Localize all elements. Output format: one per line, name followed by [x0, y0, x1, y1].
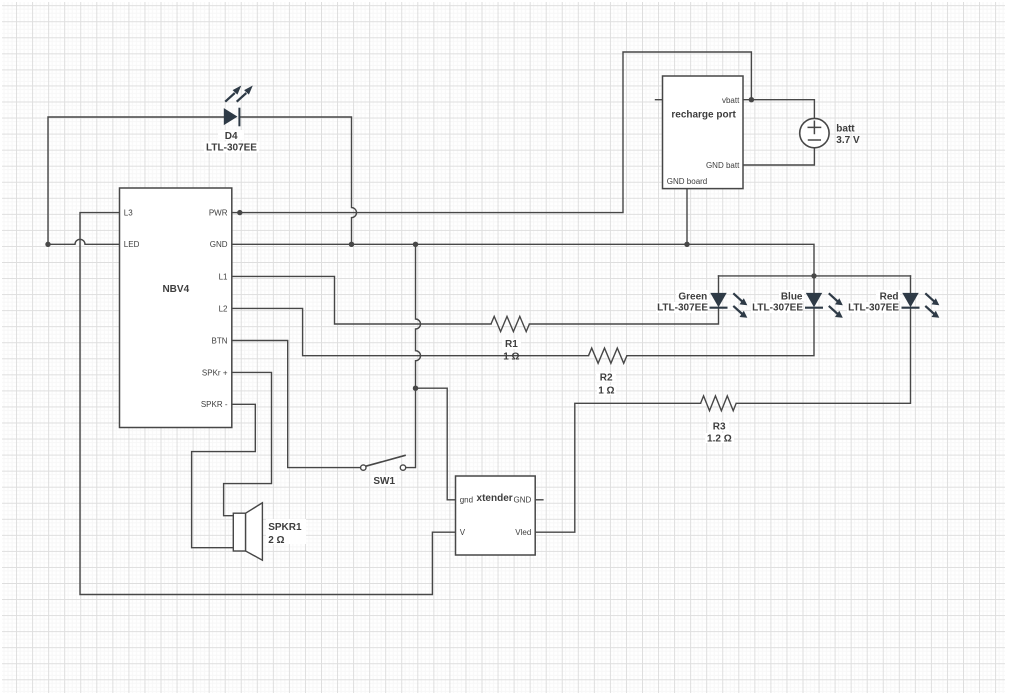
wire: [232, 341, 361, 468]
svg-text:LTL-307EE: LTL-307EE: [848, 303, 899, 314]
IC U1 NBV4 box: [120, 188, 232, 428]
label Green: [656, 290, 709, 314]
pin labels recharge port: [667, 96, 740, 186]
svg-text:L1: L1: [219, 272, 228, 281]
wire: [406, 244, 421, 467]
wire: [48, 239, 120, 244]
wire: [627, 308, 814, 356]
svg-text:GND: GND: [210, 240, 228, 249]
svg-text:SPKR -: SPKR -: [201, 400, 228, 409]
svg-text:GND board: GND board: [667, 177, 707, 186]
svg-text:1 Ω: 1 Ω: [503, 352, 519, 363]
wire: [686, 189, 688, 245]
wire: [192, 404, 256, 547]
resistor R1: [491, 316, 529, 331]
label R3: [705, 421, 734, 445]
wire: [224, 372, 272, 515]
wire: [718, 276, 720, 293]
svg-text:2 Ω: 2 Ω: [268, 535, 284, 546]
svg-text:NBV4: NBV4: [162, 284, 189, 295]
junction node vbatt: [749, 97, 754, 102]
label D4: [218, 130, 244, 142]
svg-text:R1: R1: [505, 339, 518, 350]
svg-text:1 Ω: 1 Ω: [598, 386, 614, 397]
svg-text:LTL-307EE: LTL-307EE: [657, 303, 708, 314]
svg-text:Blue: Blue: [781, 291, 803, 302]
label batt 3.7V: [836, 123, 860, 146]
wire pin stub recharge port left: [656, 99, 663, 101]
junction node D4-GND: [349, 242, 354, 247]
wire: [736, 308, 910, 404]
svg-text:Vled: Vled: [515, 528, 531, 537]
junction node GND-SW: [413, 242, 418, 247]
label Blue: [751, 290, 804, 314]
wire: [529, 308, 718, 324]
speaker SPKR1: [233, 503, 262, 560]
svg-text:LTL-307EE: LTL-307EE: [752, 303, 803, 314]
label R2: [596, 372, 616, 397]
svg-text:PWR: PWR: [209, 208, 228, 217]
svg-text:L2: L2: [219, 304, 228, 313]
IC U3 xtender box: [456, 476, 536, 555]
svg-text:1.2 Ω: 1.2 Ω: [707, 434, 732, 445]
LED red: [902, 293, 940, 318]
wire: [719, 275, 911, 277]
svg-text:3.7 V: 3.7 V: [836, 135, 860, 146]
pin labels NBV4: [124, 208, 228, 409]
svg-text:R3: R3: [713, 421, 726, 432]
svg-text:SW1: SW1: [373, 476, 395, 487]
wire: [80, 213, 456, 595]
svg-text:xtender: xtender: [477, 493, 513, 504]
wire: [232, 276, 491, 324]
label Red: [847, 290, 900, 314]
wire: [743, 148, 814, 165]
svg-text:Red: Red: [880, 291, 899, 302]
wire: [232, 52, 752, 213]
label R1: [502, 339, 521, 363]
svg-text:LED: LED: [124, 240, 140, 249]
label SPKR1 2ohm: [266, 519, 306, 546]
label SW1: [372, 475, 397, 487]
resistor R2: [589, 348, 627, 363]
svg-text:GND batt: GND batt: [706, 161, 740, 170]
wire: [239, 117, 356, 244]
junction node PWR: [237, 210, 242, 215]
LED D4: [224, 86, 253, 127]
wire: [416, 388, 456, 500]
svg-text:gnd: gnd: [460, 496, 473, 505]
junction node SW-xtender: [413, 386, 418, 391]
svg-text:Green: Green: [678, 291, 707, 302]
svg-text:recharge port: recharge port: [671, 110, 736, 121]
svg-text:L3: L3: [124, 208, 133, 217]
svg-text:vbatt: vbatt: [722, 96, 740, 105]
svg-text:SPKr +: SPKr +: [202, 368, 228, 377]
wire: [232, 244, 814, 276]
junction node LED bus: [811, 273, 816, 278]
wire: [48, 117, 224, 244]
resistor R3: [701, 396, 737, 411]
svg-text:D4: D4: [225, 131, 238, 142]
wire: [743, 100, 814, 119]
svg-text:R2: R2: [600, 372, 613, 383]
battery batt: [800, 118, 829, 147]
svg-text:LTL-307EE: LTL-307EE: [206, 142, 257, 153]
wire: [535, 403, 700, 532]
svg-text:batt: batt: [836, 123, 855, 134]
junction node GND board: [684, 242, 689, 247]
LED blue: [805, 293, 843, 318]
svg-text:BTN: BTN: [212, 336, 228, 345]
IC U2 recharge port box: [663, 76, 744, 189]
wire pin stub xtender GND: [535, 499, 543, 501]
pin labels xtender: [460, 496, 532, 537]
wire: [813, 276, 815, 293]
wire: [910, 276, 912, 293]
svg-text:GND: GND: [514, 496, 532, 505]
svg-text:V: V: [460, 528, 466, 537]
svg-text:SPKR1: SPKR1: [268, 522, 302, 533]
LED green: [710, 293, 748, 318]
junction node LED left: [45, 242, 50, 247]
label LTL-307EE: [204, 142, 259, 154]
switch SW1: [361, 455, 406, 470]
wire: [232, 308, 589, 355]
